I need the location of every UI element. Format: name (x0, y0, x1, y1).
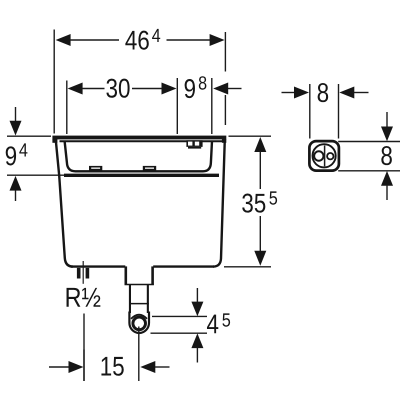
dimension 30: left extension line (66, 81, 68, 135)
dimension 30: right arrow (162, 83, 177, 95)
detail 8 width: left extension line (309, 84, 311, 139)
dimension 46.4: left extension line (53, 30, 55, 134)
R 1/2 centerline upper (82, 261, 84, 284)
detail cross-section right hole (327, 153, 333, 159)
dimension 46.4: dimension line (70, 39, 210, 41)
tank bottom line left part (71, 265, 125, 267)
detail 8 width: label (318, 83, 329, 102)
dimension 9.8: arrow pointing left with tail (213, 83, 241, 95)
dimension 30: label (106, 79, 129, 98)
dimension 35.5: bottom extension line (224, 266, 271, 268)
dimension 15: left arrow with tail (49, 361, 84, 373)
detail 8 height: bottom extension line (338, 170, 400, 172)
dimension 9.8: right boundary line (211, 78, 213, 134)
detail 8 height: label (381, 146, 392, 165)
detail cross-section big circle (313, 144, 336, 167)
detail 8 width: right extension line (338, 84, 340, 139)
dimension 4.5: label (207, 313, 230, 333)
flush bend bell outline (129, 312, 149, 334)
dimension 15: left boundary lower segment (83, 350, 85, 382)
dimension 35.5: top extension line (229, 135, 272, 137)
R 1/2 label (67, 288, 101, 307)
inner tank outline (65, 141, 212, 171)
detail 8 height: top extension line (338, 141, 400, 143)
R 1/2 supply stub right bar (86, 268, 90, 279)
dimension 9.4: top extension line (7, 135, 51, 137)
dimension 15: right arrow with tail (140, 361, 169, 373)
flush pipe flange joint line (125, 284, 154, 286)
dimension 4.5: down arrow (191, 288, 203, 316)
flush bend upper arc (131, 315, 147, 319)
flush pipe left wall (129, 285, 131, 313)
outer tank right wall (213, 142, 225, 266)
flush pipe stub left wall (125, 266, 128, 284)
R 1/2 centerline lower / dimension 15 left boundary (83, 314, 85, 382)
dimension 30: dimension line (82, 88, 162, 90)
dimension 9.8: label (185, 76, 207, 98)
flush pipe centerline / dimension 15 right boundary (138, 327, 140, 382)
dimension 30: left arrow (68, 83, 83, 95)
flush bend outlet ring (133, 317, 146, 330)
dimension 35.5: label (242, 191, 277, 212)
dimension 30: right extension line (176, 78, 178, 134)
inner tank clip left (89, 166, 102, 171)
detail cross-section vertical divider (324, 146, 326, 167)
cistern lid right hook (222, 139, 226, 143)
dimension 46.4: right arrow (210, 34, 225, 46)
detail 8 height: down arrow (381, 112, 393, 141)
detail cross-section left hole (314, 151, 323, 160)
dimension 9.4: up arrow (10, 176, 22, 201)
detail cross-section rounded square (309, 141, 339, 171)
dimension 35.5: down arrow (254, 251, 266, 266)
dimension 9.4: label (6, 143, 28, 165)
dimension 46.4: left arrow (56, 34, 71, 46)
R 1/2 supply stub left bar (77, 268, 81, 279)
shelf line (64, 174, 219, 177)
tank bottom line right part (153, 265, 214, 267)
dimension 35.5: dimension line (259, 151, 261, 252)
flush pipe right wall (147, 285, 149, 313)
dimension 9.4: bottom extension line (7, 174, 66, 176)
cistern lid left hook (52, 139, 57, 143)
dimension 4.5: up arrow (191, 333, 203, 362)
dimension 46.4: right extension line (upper segment) (224, 32, 226, 72)
dimension 46.4: label (125, 29, 160, 50)
inner tank clip right (143, 166, 156, 171)
detail 8 height: up arrow (381, 171, 393, 200)
flush pipe joint line (129, 303, 149, 305)
detail 8 width: left arrow with tail (282, 87, 310, 99)
dimension 15: label (101, 357, 123, 376)
dimension 4.5: bottom extension line (151, 332, 208, 334)
flush pipe stub right wall (151, 266, 154, 284)
fill valve housing box (186, 140, 202, 148)
outer tank left wall (56, 142, 73, 266)
cistern lid band (52, 136, 226, 140)
detail 8 width: right arrow with tail (339, 87, 368, 99)
dimension 46.4: right extension line (lower segment) (224, 95, 226, 125)
dimension 35.5: up arrow (254, 137, 266, 152)
dimension 9.4: down arrow (10, 107, 22, 136)
cistern rim line under lid (60, 140, 223, 142)
dimension 4.5: top extension line (152, 315, 207, 317)
